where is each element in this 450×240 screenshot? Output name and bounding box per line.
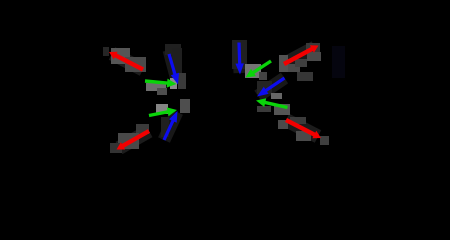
gray artifact block around R2 shaft [118, 133, 139, 149]
gray artifact band around B3 shaft [232, 40, 247, 69]
gray artifact block right of B1 head [178, 73, 186, 89]
dark halo under arrow R3 [284, 48, 315, 65]
green arrow G2 (points right-up) [149, 107, 177, 116]
gray artifact sliver under G1 shaft [146, 83, 166, 91]
dark halo under arrow B1 [169, 50, 178, 84]
gray artifact blob between G1 tip and B1 head [170, 78, 177, 89]
dark halo under arrow B2 [164, 112, 177, 140]
blue arrow B2 (points up-right) [164, 111, 178, 140]
gray artifact blob right of B4 tip [271, 93, 282, 99]
faint navy artifact blob right side [332, 46, 345, 78]
dark halo under arrow B3 [239, 42, 240, 73]
gray artifact block at R1 head [111, 48, 130, 64]
gray artifact band along B2 shaft [161, 117, 169, 137]
gray artifact block left of R1 tip [103, 47, 109, 56]
blue arrow B1 (points down) [169, 54, 179, 85]
gray artifact blob right of B3 head behind G3 [245, 64, 261, 78]
gray artifact band right of B1 shaft [172, 48, 182, 76]
gray artifact block under G4 shaft [274, 104, 290, 115]
blue arrow B4 (points lower-left) [257, 78, 285, 97]
gray artifact block right of R4 tip [320, 136, 329, 145]
blue arrow B3 (points down) [235, 43, 244, 75]
dark halo under arrow B4 [258, 78, 285, 96]
green arrow G1 (points right) [145, 79, 177, 88]
red arrow R1 (points upper-left) [109, 52, 143, 70]
gray artifact block below R3 head [307, 52, 321, 61]
red arrow R4 (points lower-right) [286, 120, 321, 138]
gray artifact block below R4 head [296, 131, 311, 141]
dark halo under arrow R4 [286, 120, 318, 137]
gray artifact block below R3 mid [295, 59, 307, 67]
red arrow R3 (points upper-right) [284, 45, 319, 64]
gray artifact block below G1 [157, 88, 167, 95]
green arrow G4 (points left) [256, 98, 288, 107]
gray artifact block upper right of R2 shaft [136, 124, 149, 134]
dark halo under arrow R1 [112, 54, 143, 70]
gray artifact block left of R4 tail [278, 120, 288, 129]
red arrow R2 (points lower-left) [117, 131, 150, 150]
gray artifact block below G4 tip [257, 106, 271, 112]
gray artifact block below G3 tip [259, 72, 267, 80]
gray artifact block below R3 shaft [288, 64, 300, 72]
gray artifact block at R1 shaft [125, 57, 146, 72]
gray artifact blob above G2 head [156, 104, 168, 114]
gray artifact block right of B2 tip [180, 99, 190, 113]
gray artifact band above B1 tail [165, 44, 181, 55]
gray artifact block above R4 shaft [290, 117, 306, 124]
gray artifact block above R3 head [306, 43, 320, 52]
dark halo under arrow R2 [119, 131, 149, 148]
gray artifact block left of R3 shaft [279, 55, 288, 72]
green arrow G3 (points lower-left) [246, 61, 272, 78]
gray artifact block at R2 head low [110, 143, 122, 153]
gray artifact band around B4 shaft [257, 81, 272, 94]
gray artifact sliver far below R3 [297, 72, 313, 81]
